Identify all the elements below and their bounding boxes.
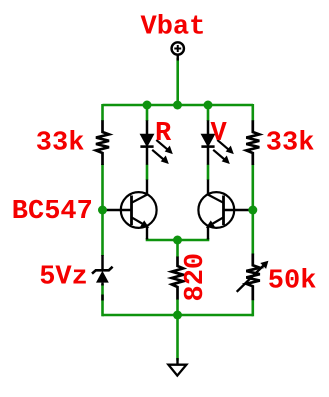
potentiometer R4 50k <box>237 254 269 301</box>
svg-text:820: 820 <box>181 253 211 302</box>
ground <box>168 358 186 376</box>
wire top bus <box>103 104 254 107</box>
wire left rail upper <box>101 104 104 121</box>
resistor R1 33k left <box>96 120 109 165</box>
zener diode D3 5Vz <box>92 255 113 301</box>
wire LED V top <box>207 104 210 121</box>
junction node B1 <box>98 206 107 215</box>
LED D2 V <box>201 120 233 165</box>
wire Q2 emitter to node E <box>178 238 209 240</box>
label R <box>155 119 172 149</box>
svg-text:BC547: BC547 <box>12 197 93 227</box>
wire right rail upper <box>252 104 255 121</box>
label Vbat <box>141 13 206 43</box>
resistor R3 820 <box>172 257 183 300</box>
resistor R2 33k right <box>246 120 259 165</box>
svg-text:R: R <box>155 119 172 149</box>
wire Vbat stub <box>176 58 179 105</box>
LED D1 R <box>140 120 172 165</box>
wire left rail lower <box>101 284 104 316</box>
svg-text:Vbat: Vbat <box>141 13 206 43</box>
svg-text:5Vz: 5Vz <box>39 263 88 293</box>
label 33k right <box>266 128 315 158</box>
wire Q1 emitter to node E <box>147 238 178 240</box>
wire LED R to Q1 collector <box>146 165 149 181</box>
label 5Vz <box>39 263 88 293</box>
label 33k left <box>36 128 85 158</box>
power terminal Vbat <box>172 42 184 60</box>
label 820 <box>181 253 211 302</box>
label BC547 <box>12 197 93 227</box>
junction bottom bus <box>173 311 182 320</box>
junction top bus left <box>143 101 152 110</box>
wire LED V to Q2 collector <box>207 165 210 181</box>
wire left rail middle <box>101 164 104 256</box>
wire bottom bus <box>103 314 254 317</box>
wire ground stub <box>176 315 179 361</box>
svg-text:50k: 50k <box>268 266 317 296</box>
wire node E to R820 <box>176 240 179 257</box>
label V <box>211 119 228 149</box>
junction node E <box>173 236 182 245</box>
wire right rail lower <box>252 300 255 317</box>
junction node B2 <box>248 206 257 215</box>
svg-text:33k: 33k <box>266 128 315 158</box>
svg-text:V: V <box>211 119 228 149</box>
wire right rail middle <box>252 164 255 255</box>
svg-text:33k: 33k <box>36 128 85 158</box>
label 50k <box>268 266 317 296</box>
junction top bus right <box>204 101 213 110</box>
wire R820 to bottom bus <box>176 299 179 316</box>
junction top bus center <box>173 101 182 110</box>
transistor Q1 BC547 left <box>104 180 157 240</box>
wire LED R top <box>146 104 149 121</box>
transistor Q2 BC547 right <box>198 180 251 240</box>
